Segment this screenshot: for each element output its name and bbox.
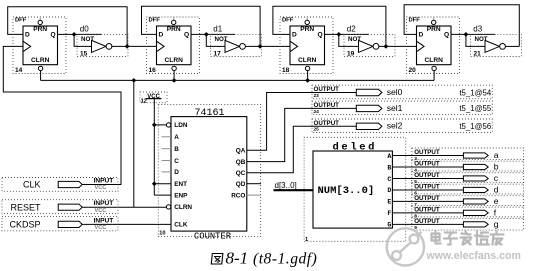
input pin RESET symbol	[58, 204, 82, 210]
svg-text:CLRN: CLRN	[298, 57, 317, 64]
svg-text:PRN: PRN	[300, 26, 314, 33]
wire deled D to output pin d	[392, 189, 464, 191]
junction VCC rail / ENT	[152, 181, 157, 186]
wire deled B to output pin b	[392, 166, 464, 168]
wire DFF1 CLRN stub down to reset line	[40, 71, 42, 81]
wire DFF4 CLRN stub down to reset line	[433, 71, 435, 81]
watermark chinese brand glyphs	[432, 232, 504, 245]
wire Q1 output (net d0)	[58, 33, 102, 35]
svg-text:DFF: DFF	[149, 18, 161, 24]
junction node d1 on Q2 wire	[204, 32, 209, 37]
output pin g symbol	[463, 222, 488, 227]
svg-text:A: A	[174, 134, 179, 141]
caption chinese char "tu" (figure)	[211, 254, 223, 265]
wire deled C to output pin c	[392, 177, 464, 179]
74161 CLRN bubble	[166, 205, 170, 209]
DFF4 dotted selection box	[407, 17, 460, 74]
DFF2 PRN bubble	[172, 20, 176, 24]
svg-text:18: 18	[282, 67, 290, 74]
svg-text:d3: d3	[473, 25, 482, 34]
wire 74161 Q to sel1 pin	[247, 108, 356, 161]
wire deled F to output pin f	[392, 212, 464, 214]
junction NOT1 output to feedback and next clock	[125, 44, 130, 49]
svg-text:CLRN: CLRN	[174, 204, 192, 211]
power VCC bar	[146, 98, 162, 100]
NOT1 output bubble	[106, 44, 112, 50]
wire CLK net: pin up and around to DFF1 clock input	[3, 46, 121, 184]
junction node d0 on Q1 wire	[72, 32, 77, 37]
svg-text:RCO: RCO	[231, 192, 245, 199]
svg-text:OUTPUT: OUTPUT	[414, 218, 440, 225]
svg-text:CLK: CLK	[23, 180, 41, 190]
svg-text:B: B	[174, 146, 179, 153]
wire NOT1 output	[112, 45, 157, 47]
output pin f dotted box	[412, 205, 524, 218]
svg-text:Q: Q	[444, 32, 449, 39]
74161 unconnected input stub C	[162, 160, 172, 162]
wire Q3 junction down into NOT3 input	[339, 34, 359, 46]
svg-text:VCC: VCC	[95, 225, 107, 231]
DFF3 PRN bubble	[305, 20, 309, 24]
junction NOT2 output to feedback and next clock	[258, 44, 263, 49]
74161 output stub QD	[247, 183, 261, 185]
NOT3 output bubble	[373, 44, 379, 50]
svg-text:D: D	[159, 32, 164, 39]
svg-text:D: D	[387, 187, 391, 194]
svg-text:DFF: DFF	[282, 18, 294, 24]
svg-text:ENP: ENP	[174, 192, 188, 199]
counter 74161 dotted selection box	[158, 104, 260, 236]
svg-text:ENT: ENT	[174, 181, 187, 188]
svg-text:23: 23	[314, 93, 320, 99]
output pin sel2 symbol	[356, 123, 382, 129]
svg-text:74161: 74161	[194, 108, 224, 119]
74161 unconnected input stub D	[162, 171, 172, 173]
wire feedback net d2 stage 3: NOT output up over top to D input	[273, 6, 386, 46]
svg-text:QB: QB	[236, 159, 246, 166]
wire CKDSP to 74161 CLK	[82, 223, 171, 225]
74161 LDN bubble	[166, 123, 170, 127]
wire Q3 output (net d2)	[325, 33, 369, 35]
svg-text:20: 20	[409, 67, 417, 74]
svg-text:b: b	[494, 161, 499, 171]
power VCC symbol dotted box	[140, 92, 167, 103]
output pin sel1 dotted box	[312, 101, 492, 115]
flip-flop DFF4 body	[417, 26, 452, 65]
wire riser from reset line down to RESET input wire	[133, 80, 135, 207]
svg-text:16: 16	[149, 67, 157, 74]
watermark logo circle	[387, 228, 424, 265]
decoder deled dotted selection box	[304, 137, 406, 241]
DFF2 clock triangle	[157, 41, 165, 52]
NOT3 dotted selection box	[344, 34, 395, 56]
svg-text:VCC: VCC	[95, 185, 107, 191]
svg-text:OUTPUT: OUTPUT	[414, 184, 440, 191]
svg-text:CLRN: CLRN	[425, 57, 444, 64]
bus wire d[3..0] into deled NUM input	[274, 189, 314, 191]
DFF3 CLRN bubble	[305, 66, 309, 70]
wire NOT3 output	[379, 45, 417, 47]
DFF1 CLRN bubble	[38, 66, 42, 70]
svg-text:E: E	[387, 199, 391, 206]
svg-text:t5_1@56: t5_1@56	[459, 122, 491, 131]
svg-text:17: 17	[214, 51, 222, 58]
svg-text:CKDSP: CKDSP	[9, 220, 40, 230]
output pin e symbol	[463, 199, 488, 204]
svg-text:(t8-1.gdf): (t8-1.gdf)	[253, 250, 317, 267]
wire deled G to output pin g	[392, 223, 464, 225]
svg-text:15: 15	[80, 51, 88, 58]
inverter NOT1 triangle	[92, 40, 107, 52]
output pin sel0 dotted box	[312, 85, 492, 99]
wire VCC rail to ENP	[154, 194, 171, 196]
wire feedback net d3 stage 4: NOT output up over top to D input	[404, 5, 519, 47]
svg-text:d[3..0]: d[3..0]	[275, 181, 297, 190]
NOT4 output bubble	[500, 44, 506, 50]
svg-text:d1: d1	[213, 25, 222, 34]
wire deled A to output pin a	[392, 155, 464, 157]
svg-text:QA: QA	[236, 148, 246, 155]
wire Q1 junction down into NOT1 input	[74, 34, 91, 46]
junction VCC rail / LDN	[152, 123, 157, 128]
flip-flop DFF1 body	[23, 26, 58, 65]
NOT1 dotted selection box	[77, 34, 128, 56]
inverter NOT4 triangle	[485, 40, 500, 52]
svg-text:d0: d0	[80, 25, 89, 34]
svg-text:OUTPUT: OUTPUT	[314, 120, 340, 127]
svg-text:A: A	[387, 153, 391, 160]
svg-text:D: D	[292, 32, 297, 39]
flip-flop DFF3 body	[290, 26, 325, 65]
NOT2 output bubble	[240, 44, 246, 50]
junction reset line / DFF3 CLRN	[305, 78, 310, 83]
svg-text:LDN: LDN	[174, 122, 188, 129]
input pin RESET dotted box	[2, 200, 118, 214]
svg-text:t5_1@55: t5_1@55	[459, 104, 491, 113]
DFF1 clock triangle	[23, 41, 31, 52]
74161 unconnected input stub A	[162, 136, 172, 138]
wire Q2 output (net d1)	[191, 33, 235, 35]
input pin CKDSP symbol	[58, 221, 82, 227]
decoder deled body	[313, 151, 392, 228]
svg-text:C: C	[387, 176, 391, 183]
svg-text:F: F	[387, 210, 391, 217]
inverter NOT3 triangle	[359, 40, 374, 52]
svg-text:14: 14	[15, 67, 23, 74]
output pin f symbol	[463, 210, 488, 215]
svg-text:a: a	[494, 150, 499, 160]
wire DFF2 CLRN stub down to reset line	[173, 71, 175, 81]
svg-text:DFF: DFF	[15, 18, 27, 24]
output pin c dotted box	[412, 171, 524, 184]
svg-text:C: C	[174, 158, 179, 165]
svg-text:21: 21	[474, 51, 482, 58]
NOT4 dotted selection box	[471, 34, 522, 56]
svg-text:c: c	[494, 173, 499, 183]
svg-text:sel0: sel0	[387, 87, 403, 97]
DFF1 PRN bubble	[38, 20, 42, 24]
svg-text:Q: Q	[51, 32, 56, 39]
DFF2 PRN pin stub	[173, 17, 175, 20]
wire 74161 Q to sel2 pin	[247, 126, 356, 172]
wire reset line linking all DFF CLRN pins	[41, 79, 435, 81]
svg-text:sel1: sel1	[387, 103, 403, 113]
svg-text:CLRN: CLRN	[165, 57, 184, 64]
output pin b symbol	[463, 164, 488, 169]
output pin b dotted box	[412, 159, 524, 172]
svg-text:19: 19	[347, 51, 355, 58]
DFF1 PRN pin stub	[39, 17, 41, 20]
wire NOT4 output	[505, 45, 519, 47]
svg-text:25: 25	[314, 127, 320, 133]
svg-text:Q: Q	[318, 32, 323, 39]
svg-text:G: G	[387, 222, 391, 229]
svg-text:INPUT: INPUT	[94, 200, 114, 207]
svg-text:OUTPUT: OUTPUT	[314, 86, 340, 93]
NOT2 dotted selection box	[211, 34, 262, 56]
wire 74161 Q to sel0 pin	[247, 93, 356, 151]
output pin c symbol	[463, 176, 488, 181]
wire feedback net d0 stage 1: NOT output up over top to D input	[8, 7, 127, 47]
svg-text:t5_1@54: t5_1@54	[459, 88, 491, 97]
inverter NOT2 triangle	[225, 40, 240, 52]
svg-text:QC: QC	[236, 170, 246, 177]
svg-text:www.elecfans.com: www.elecfans.com	[426, 250, 521, 262]
svg-text:OUTPUT: OUTPUT	[314, 102, 340, 109]
svg-text:PRN: PRN	[167, 26, 181, 33]
input pin CKDSP dotted box	[2, 217, 118, 231]
svg-text:1: 1	[305, 237, 308, 243]
DFF4 CLRN bubble	[432, 66, 436, 70]
svg-text:g: g	[494, 219, 499, 229]
svg-text:8-1: 8-1	[226, 248, 249, 267]
svg-text:D: D	[174, 169, 179, 176]
wire VCC rail to LDN	[154, 124, 166, 126]
junction reset line / DFF2 CLRN	[172, 78, 177, 83]
DFF2 CLRN bubble	[172, 66, 176, 70]
wire Q4 output (net d3)	[451, 33, 495, 35]
output pin sel2 dotted box	[312, 119, 492, 133]
wire VCC rail down to 74161 LDN/ENT/ENP	[153, 99, 155, 196]
svg-text:NUM[3..0]: NUM[3..0]	[318, 185, 375, 197]
DFF4 PRN bubble	[432, 20, 436, 24]
svg-text:VCC: VCC	[95, 208, 107, 214]
svg-text:INPUT: INPUT	[94, 217, 114, 224]
svg-text:CLK: CLK	[174, 222, 188, 229]
junction reset line / riser to RESET pin	[131, 78, 136, 83]
counter 74161 body	[171, 117, 247, 232]
svg-text:sel2: sel2	[387, 121, 403, 131]
output pin g dotted box	[412, 217, 524, 230]
svg-text:OUTPUT: OUTPUT	[414, 195, 440, 202]
wire Q4 junction down into NOT4 input	[466, 34, 485, 46]
svg-text:INPUT: INPUT	[94, 178, 114, 185]
input pin CLK symbol	[58, 181, 82, 187]
output pin d symbol	[463, 187, 488, 192]
DFF3 clock triangle	[290, 41, 298, 52]
DFF4 clock triangle	[417, 41, 425, 52]
svg-text:OUTPUT: OUTPUT	[414, 149, 440, 156]
output pin d dotted box	[412, 182, 524, 195]
output pin a symbol	[463, 153, 488, 158]
svg-text:Q: Q	[184, 32, 189, 39]
svg-text:10: 10	[159, 230, 165, 236]
svg-text:d: d	[494, 184, 499, 194]
svg-text:24: 24	[314, 109, 320, 115]
svg-text:D: D	[419, 32, 424, 39]
DFF4 PRN pin stub	[433, 17, 435, 20]
svg-text:D: D	[25, 32, 30, 39]
output pin sel1 symbol	[356, 105, 382, 111]
wire DFF3 CLRN stub down to reset line	[307, 71, 309, 81]
svg-text:e: e	[494, 196, 499, 206]
svg-text:COUNTER: COUNTER	[194, 231, 232, 241]
wire VCC rail to ENT	[154, 183, 171, 185]
wire feedback net d1 stage 2: NOT output up over top to D input	[142, 6, 261, 46]
svg-text:OUTPUT: OUTPUT	[414, 161, 440, 168]
flip-flop DFF2 body	[157, 26, 192, 65]
svg-text:12: 12	[141, 99, 147, 105]
74161 unconnected input stub B	[162, 148, 172, 150]
svg-text:OUTPUT: OUTPUT	[414, 207, 440, 214]
output pin sel0 symbol	[356, 89, 382, 95]
svg-text:CLRN: CLRN	[31, 57, 50, 64]
DFF1 dotted selection box	[13, 17, 66, 74]
svg-text:d2: d2	[347, 25, 356, 34]
svg-text:QD: QD	[236, 181, 246, 188]
DFF2 dotted selection box	[147, 17, 200, 74]
wire NOT2 output	[245, 45, 290, 47]
svg-text:OUTPUT: OUTPUT	[414, 172, 440, 179]
junction NOT3 output to feedback and next clock	[384, 44, 389, 49]
svg-text:B: B	[387, 164, 391, 171]
svg-text:PRN: PRN	[33, 26, 47, 33]
junction node d3 on Q4 wire	[464, 32, 469, 37]
DFF3 PRN pin stub	[306, 17, 308, 20]
svg-text:PRN: PRN	[427, 26, 441, 33]
junction node d2 on Q3 wire	[336, 32, 341, 37]
74161 unconnected output stub RCO	[247, 194, 261, 196]
input pin CLK dotted box	[2, 178, 118, 192]
svg-text:DFF: DFF	[409, 18, 421, 24]
svg-text:RESET: RESET	[10, 202, 41, 212]
output pin a dotted box	[412, 148, 524, 161]
wire deled E to output pin e	[392, 200, 464, 202]
output pin e dotted box	[412, 194, 524, 207]
DFF3 dotted selection box	[280, 17, 333, 74]
wire Q2 junction down into NOT2 input	[206, 34, 225, 46]
wire RESET to 74161 CLRN	[82, 206, 166, 208]
